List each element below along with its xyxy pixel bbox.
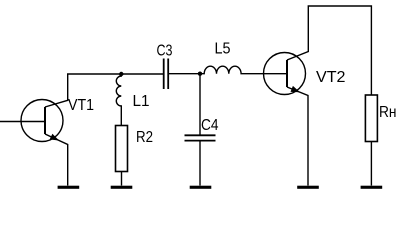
svg-text:R2: R2 [136,129,153,146]
svg-text:C4: C4 [201,117,219,134]
svg-text:VT1: VT1 [68,97,94,114]
svg-text:VT2: VT2 [316,69,346,86]
svg-text:Rн: Rн [379,104,397,121]
svg-text:C3: C3 [157,43,173,60]
svg-text:L1: L1 [133,93,150,110]
svg-text:L5: L5 [215,40,231,57]
